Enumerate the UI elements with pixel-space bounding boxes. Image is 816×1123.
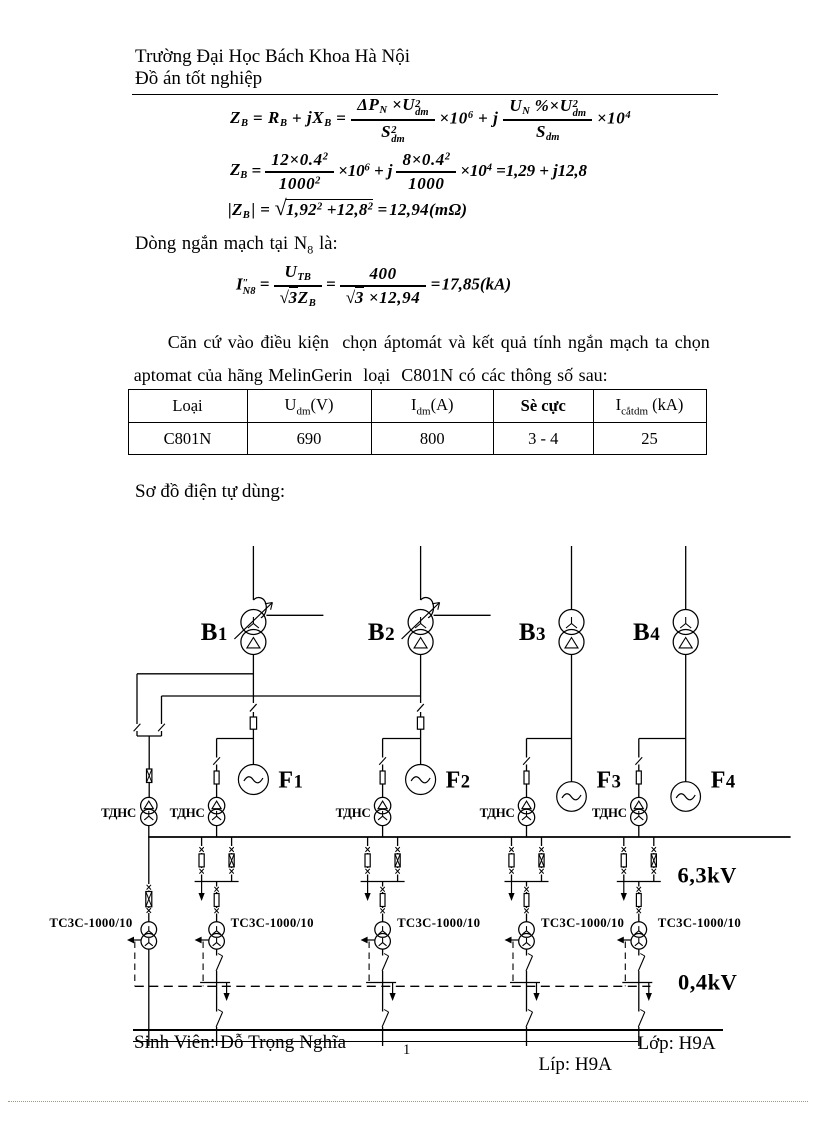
transformer B4 xyxy=(673,610,698,635)
wire + breaker blade below transformer xyxy=(526,949,528,955)
transformer TC3C-1000/10 xyxy=(519,922,535,938)
wire: TDNS to 6.3kV bus xyxy=(148,826,150,837)
formula 2 xyxy=(230,150,587,194)
outgoing arrow from tie bar xyxy=(511,882,513,895)
wire: branch tap of unit B1 xyxy=(217,738,254,740)
disconnector tick on branch of B3 xyxy=(523,757,530,765)
svg-text:ТДНС: ТДНС xyxy=(170,806,205,820)
wire: merge bar of spare feeds xyxy=(137,735,162,737)
contact marks + fuse (filled) right of pair xyxy=(395,847,399,852)
wire: third winding tap of B1 to right xyxy=(266,614,323,616)
arrow to left from spare transformer xyxy=(133,939,142,941)
outgoing arrow from tie bar xyxy=(201,882,203,895)
transformer TC3C-1000/10 xyxy=(375,922,391,938)
transformer TC3C-1000/10 (spare) xyxy=(141,922,157,938)
tie bar at 0.4kV xyxy=(622,982,652,984)
svg-text:0,4kV: 0,4kV xyxy=(678,970,737,995)
generator F3 xyxy=(557,782,587,812)
footer student name xyxy=(134,1032,346,1054)
wire: spare column through 6.3kV bus down to fuse xyxy=(148,837,150,884)
wire: pair drop left at x=624 xyxy=(623,837,625,846)
unit B3 main feeder wire from top xyxy=(571,546,573,610)
outgoing arrow below 0.4kV bar xyxy=(392,983,394,994)
wire: branch fuse to TDNS of B3 xyxy=(526,784,528,797)
transformer TDNS (spare) xyxy=(141,797,157,813)
wire: feeder below 0.4kV with breaker blade xyxy=(638,983,640,1012)
svg-text:B4: B4 xyxy=(633,619,660,646)
tie bar at 0.4kV xyxy=(200,982,230,984)
wire: pair drop right at x=654 xyxy=(653,837,655,846)
arrow to left from transformer LV side xyxy=(367,939,376,941)
fuse on branch of B2 xyxy=(380,771,385,784)
tie bar under fuse pair xyxy=(617,881,661,883)
wire: pair drop left at x=368 xyxy=(367,837,369,846)
arrow to left from transformer LV side xyxy=(623,939,632,941)
wire: pair drop right at x=542 xyxy=(541,837,543,846)
wire: TDNS of B1 to 6.3kV bus xyxy=(216,826,218,837)
header rule xyxy=(132,94,718,95)
fuse on branch of B4 xyxy=(636,771,641,784)
svg-text:6,3kV: 6,3kV xyxy=(678,863,737,888)
wire: branch tap of unit B4 xyxy=(639,738,686,740)
svg-text:ТС3С-1000/10: ТС3С-1000/10 xyxy=(397,916,480,930)
outgoing arrow below 0.4kV bar xyxy=(536,983,538,994)
wire + breaker blade below transformer xyxy=(216,949,218,955)
unit B2 main feeder wire from top xyxy=(420,546,422,600)
transformer TC3C-1000/10 xyxy=(209,922,225,938)
wire hook into transformer B2 xyxy=(421,598,434,618)
wire: feeder down with contact marks and fuse xyxy=(638,882,640,887)
svg-text:ТДНС: ТДНС xyxy=(480,806,515,820)
paragraph: So do dien tu dung xyxy=(135,481,285,503)
bus 0,4kV (dashed) xyxy=(135,985,651,987)
wire: pair drop left at x=202 xyxy=(201,837,203,846)
tap-changer arrow of B1 xyxy=(234,603,272,640)
generator F1 xyxy=(238,765,268,795)
contact marks + fuse (open) left of pair xyxy=(509,847,513,852)
disconnector tick on branch of B4 xyxy=(635,757,642,765)
contact marks + fuse (filled) right of pair xyxy=(229,847,233,852)
outgoing arrow from tie bar xyxy=(623,882,625,895)
svg-text:B3: B3 xyxy=(519,619,546,646)
wire: branch tap of unit B2 xyxy=(383,738,421,740)
svg-text:B1: B1 xyxy=(201,619,228,646)
wire: branch fuse to TDNS of B2 xyxy=(382,784,384,797)
formula 3 xyxy=(228,195,467,222)
disconnector tick on right drop xyxy=(158,724,165,732)
outgoing arrow below 0.4kV bar xyxy=(648,983,650,994)
disconnector tick on branch of B1 xyxy=(213,757,220,765)
wire: B3 to generator xyxy=(571,655,573,782)
dashed drop to 0.4kV bus xyxy=(202,942,204,987)
wire: feeder below 0.4kV with breaker blade xyxy=(216,983,218,1012)
footer page number xyxy=(403,1042,410,1059)
formula 1 xyxy=(230,95,631,144)
svg-text:B2: B2 xyxy=(368,619,395,646)
svg-text:ТС3С-1000/10: ТС3С-1000/10 xyxy=(49,916,132,930)
wire: spare feed left drop xyxy=(136,674,138,724)
footer class second line xyxy=(539,1054,612,1076)
generator F2 xyxy=(406,765,436,795)
wire: spare column down to fuse xyxy=(148,736,150,769)
wire: feeder down with contact marks and fuse xyxy=(216,882,218,887)
transformer B3 xyxy=(559,610,584,635)
paragraph: Dong ngan mach xyxy=(135,234,338,258)
tie bar under fuse pair xyxy=(361,881,405,883)
arrow to left from transformer LV side xyxy=(201,939,210,941)
svg-text:F3: F3 xyxy=(597,768,622,794)
svg-text:ТС3С-1000/10: ТС3С-1000/10 xyxy=(541,916,624,930)
contact marks + fuse (open) left of pair xyxy=(365,847,369,852)
transformer TDNS of unit B4 xyxy=(631,797,647,813)
wire: TDNS of B4 to 6.3kV bus xyxy=(638,826,640,837)
disconnector tick on B2 main line xyxy=(417,704,424,712)
tap-changer arrow of B2 xyxy=(402,603,440,640)
wire: TDNS of B3 to 6.3kV bus xyxy=(526,826,528,837)
wire + breaker blade below transformer xyxy=(638,949,640,955)
transformer TDNS of unit B2 xyxy=(374,797,390,813)
footer thin strike line xyxy=(133,1041,638,1042)
svg-text:ТС3С-1000/10: ТС3С-1000/10 xyxy=(231,916,314,930)
faint dotted divider at page bottom xyxy=(8,1101,808,1102)
wire + breaker blade below transformer xyxy=(382,949,384,955)
wire: TDNS of B2 to 6.3kV bus xyxy=(382,826,384,837)
bus 6,3kV xyxy=(148,836,790,838)
tie bar at 0.4kV xyxy=(510,982,540,984)
svg-text:F4: F4 xyxy=(711,768,736,794)
svg-text:ТДНС: ТДНС xyxy=(336,806,371,820)
footer thick rule xyxy=(133,1029,723,1031)
wire: spare fuse to TDNS transformer xyxy=(148,783,150,798)
disconnector tick on branch of B2 xyxy=(379,757,386,765)
wire: B2 to generator xyxy=(420,655,422,704)
unit B1 main feeder wire from top xyxy=(252,546,254,600)
wire: feeder below 0.4kV with breaker blade xyxy=(526,983,528,1012)
fuse on branch of B3 xyxy=(524,771,529,784)
wire: branch fuse to TDNS of B4 xyxy=(638,784,640,797)
wire: feeder below 0.4kV with breaker blade xyxy=(382,983,384,1012)
wire: horizontal tie from spare feed to B2 line xyxy=(162,695,421,697)
tie bar under fuse pair xyxy=(505,881,549,883)
header text xyxy=(135,46,410,90)
svg-text:F1: F1 xyxy=(278,768,303,794)
wire: feeder down with contact marks and fuse xyxy=(526,882,528,887)
contact marks + fuse (filled) right of pair xyxy=(652,847,656,852)
wire: B1 to generator xyxy=(252,655,254,704)
fuse (filled) on spare column xyxy=(147,769,152,783)
wire: pair drop right at x=398 xyxy=(397,837,399,846)
wire: horizontal tie from spare feed to B1 line xyxy=(137,673,253,675)
transformer TDNS of unit B3 xyxy=(518,797,534,813)
outgoing arrow from tie bar xyxy=(367,882,369,895)
unit B4 main feeder wire from top xyxy=(685,546,687,610)
wire: branch fuse to TDNS of B1 xyxy=(216,784,218,797)
dashed drop to 0.4kV bus xyxy=(624,942,626,987)
disconnector tick on left drop xyxy=(134,724,141,732)
table aptomat xyxy=(128,389,707,455)
dashed drop to 0.4kV bus xyxy=(368,942,370,987)
dashed drop to 0.4kV bus xyxy=(512,942,514,987)
footer class right xyxy=(638,1033,716,1055)
svg-text:ТС3С-1000/10: ТС3С-1000/10 xyxy=(658,916,741,930)
paragraph: Can cu vao ... xyxy=(134,326,710,392)
wire: spare feed right drop xyxy=(161,696,163,724)
wire hook into transformer B1 xyxy=(253,598,266,618)
wire: third winding tap of B2 to right xyxy=(434,614,491,616)
transformer TC3C-1000/10 xyxy=(631,922,647,938)
wire: B4 to generator xyxy=(685,655,687,782)
reactor on B2 main line xyxy=(420,729,422,764)
wire: feeder down with contact marks and fuse xyxy=(382,882,384,887)
contact marks + fuse (open) left of pair xyxy=(199,847,203,852)
fuse on branch of B1 xyxy=(214,771,219,784)
arrow to left from transformer LV side xyxy=(511,939,520,941)
disconnector tick on B1 main line xyxy=(250,704,257,712)
contact marks + fuse (open) left of pair xyxy=(622,847,626,852)
generator F4 xyxy=(671,782,701,812)
formula 4 xyxy=(236,262,511,309)
tie bar at 0.4kV xyxy=(366,982,396,984)
wire: spare column straight down xyxy=(148,949,150,1046)
svg-text:F2: F2 xyxy=(446,768,471,794)
reactor on B1 main line xyxy=(252,729,254,764)
tie bar under fuse pair xyxy=(195,881,239,883)
contact marks + fuse (filled) right of pair xyxy=(539,847,543,852)
fuse (filled) on spare column below bus xyxy=(146,892,152,907)
transformer TDNS of unit B1 xyxy=(208,797,224,813)
transformer B2 xyxy=(408,610,433,635)
dashed drop from spare to 0.4kV bus xyxy=(134,942,136,987)
transformer B1 xyxy=(241,610,266,635)
wire: pair drop left at x=512 xyxy=(511,837,513,846)
wire: pair drop right at x=232 xyxy=(231,837,233,846)
svg-text:ТДНС: ТДНС xyxy=(592,806,627,820)
outgoing arrow below 0.4kV bar xyxy=(226,983,228,994)
wire: branch tap of unit B3 xyxy=(527,738,572,740)
svg-text:ТДНС: ТДНС xyxy=(101,806,136,820)
